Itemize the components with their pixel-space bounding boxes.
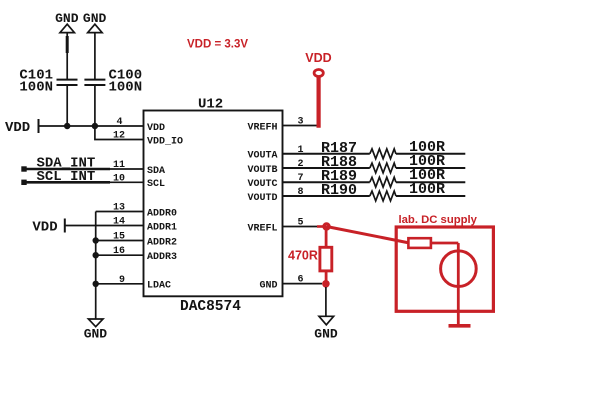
svg-text:VREFH: VREFH	[247, 122, 277, 133]
wire C101 bottom leg	[66, 85, 68, 126]
wire red vertical through source	[457, 243, 460, 326]
svg-text:R190: R190	[321, 182, 357, 199]
junction dot LDAC	[93, 281, 99, 287]
svg-text:ADDR2: ADDR2	[147, 237, 177, 248]
wire red diagonal to lab supply	[327, 227, 410, 244]
wire pin 7 VOUTC	[283, 181, 370, 183]
svg-text:VOUTB: VOUTB	[247, 165, 277, 176]
ground GND (below 470R)	[314, 316, 338, 341]
ground GND (below LDAC bus)	[84, 319, 108, 342]
ground bar (lab supply)	[449, 324, 471, 328]
capacitor C100	[84, 68, 142, 96]
svg-text:100N: 100N	[19, 80, 53, 96]
pin 12 VDD_IO label	[113, 131, 183, 148]
pin 5 VREFL label	[247, 218, 303, 235]
svg-text:VDD: VDD	[305, 51, 331, 65]
net SCL_INT	[21, 169, 143, 185]
wire red stub into junction	[317, 225, 327, 228]
wire pin 2 VOUTB	[283, 167, 370, 169]
pin 16 ADDR3 label	[113, 246, 177, 263]
pin 9 LDAC label	[119, 275, 171, 292]
op-amp U12 IC body	[144, 97, 283, 316]
wire ADDR bus vertical	[95, 212, 97, 320]
resistor R188	[321, 154, 396, 173]
svg-text:13: 13	[113, 203, 125, 214]
svg-text:470R: 470R	[288, 249, 318, 263]
pin 15 ADDR2 label	[113, 232, 177, 249]
svg-text:GND: GND	[84, 327, 108, 342]
svg-text:U12: U12	[198, 97, 223, 113]
resistor R187	[321, 140, 396, 159]
pin 8 VOUTD label	[247, 187, 303, 204]
svg-text:VOUTD: VOUTD	[247, 193, 277, 204]
svg-text:ADDR0: ADDR0	[147, 208, 177, 219]
pin 10 SCL label	[113, 173, 165, 190]
svg-text:LDAC: LDAC	[147, 281, 171, 292]
wire thick segment on C101 top leg	[66, 36, 69, 53]
wire VDD to pin 14 ADDR1	[65, 225, 144, 227]
svg-text:VDD = 3.3V: VDD = 3.3V	[187, 39, 248, 51]
wire pin 3 VREFH	[283, 125, 319, 127]
svg-text:16: 16	[113, 246, 125, 257]
pin 1 VOUTA label	[247, 145, 303, 162]
svg-text:ADDR1: ADDR1	[147, 222, 177, 233]
node VDD (ADDR pull-up supply)	[32, 219, 64, 236]
svg-text:lab. DC supply: lab. DC supply	[399, 214, 478, 226]
wire pin 5 VREFL	[283, 226, 319, 228]
wire pin 13 ADDR0	[96, 211, 144, 213]
wire pin 9 LDAC	[96, 283, 144, 285]
junction dot C100/VDD	[92, 123, 98, 129]
svg-text:15: 15	[113, 232, 125, 243]
capacitor C101	[19, 68, 77, 96]
resistor R189	[321, 168, 396, 187]
wire pin 16 ADDR3	[96, 254, 144, 256]
wire red resistor to source	[431, 242, 458, 245]
pin 4 VDD label	[116, 117, 165, 134]
pin 13 ADDR0 label	[113, 203, 177, 220]
wire pin 6 GND	[283, 283, 323, 285]
node VDD (left supply)	[5, 119, 39, 136]
pin 2 VOUTB label	[247, 159, 303, 176]
svg-text:VDD: VDD	[32, 220, 57, 236]
svg-text:9: 9	[119, 275, 125, 286]
resistor R190	[321, 182, 396, 201]
svg-text:11: 11	[113, 160, 125, 171]
svg-text:GND: GND	[259, 280, 277, 291]
wire pin 8 VOUTD	[283, 195, 370, 197]
wire pin 1 VOUTA	[283, 153, 370, 155]
resistor 470R	[288, 247, 332, 271]
value 100R (R189)	[396, 167, 465, 184]
ground GND (top left, for C101)	[55, 11, 79, 33]
pin 7 VOUTC label	[247, 173, 303, 190]
junction dot red (pin 6 node)	[322, 280, 330, 288]
pin 3 VREFH label	[247, 117, 303, 134]
value 100R (R187)	[396, 139, 465, 156]
value 100R (R188)	[396, 153, 465, 170]
net SDA_INT	[21, 155, 143, 171]
svg-text:ADDR3: ADDR3	[147, 252, 177, 263]
pin 11 SDA label	[113, 160, 165, 177]
wire C101 top leg	[66, 33, 68, 80]
junction dot ADDR3	[93, 252, 99, 258]
svg-text:10: 10	[113, 173, 125, 184]
svg-text:VDD: VDD	[5, 120, 30, 136]
wire red vertical to 470R	[325, 227, 328, 248]
svg-text:VOUTA: VOUTA	[247, 151, 277, 162]
ground GND (top, for C100)	[83, 11, 107, 33]
wire pin 15 ADDR2	[96, 240, 144, 242]
lab DC supply box	[396, 227, 493, 311]
svg-text:VOUTC: VOUTC	[247, 179, 277, 190]
junction dot C101/VDD	[64, 123, 70, 129]
svg-text:4: 4	[116, 117, 122, 128]
value 100R (R190)	[396, 181, 465, 198]
svg-text:DAC8574: DAC8574	[180, 299, 241, 315]
svg-text:VDD: VDD	[147, 123, 165, 134]
svg-text:VREFL: VREFL	[247, 223, 277, 234]
wire red 470R to pin 6 node	[325, 271, 328, 284]
node pin5 red junction	[322, 222, 330, 230]
wire VDD rail to pin 4	[39, 125, 144, 127]
svg-text:14: 14	[113, 217, 125, 228]
svg-text:SDA: SDA	[147, 166, 165, 177]
wire C100 bottom leg down to pin 12 jog	[95, 85, 144, 140]
pin 6 GND label	[259, 275, 303, 292]
svg-text:VDD_IO: VDD_IO	[147, 136, 183, 147]
lab supply series resistor (box symbol)	[408, 238, 431, 248]
junction dot ADDR2	[93, 237, 99, 243]
wire down to ground	[325, 287, 327, 316]
svg-text:GND: GND	[314, 327, 338, 342]
pin 14 ADDR1 label	[113, 217, 177, 234]
svg-text:12: 12	[113, 131, 125, 142]
source circle	[441, 251, 477, 287]
svg-text:100N: 100N	[109, 80, 143, 96]
wire C100 top leg	[94, 33, 96, 80]
power VDD (red supply to VREFH)	[305, 51, 331, 128]
svg-text:SCL: SCL	[147, 179, 165, 190]
